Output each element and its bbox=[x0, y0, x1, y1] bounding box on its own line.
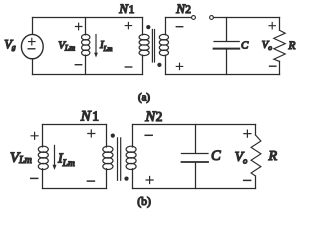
minus sign Vo (a) bbox=[270, 65, 276, 67]
minus sign secondary (a) bbox=[176, 26, 182, 28]
svg-text:ILm: ILm bbox=[99, 39, 112, 53]
transformer core (a) bbox=[152, 30, 154, 63]
minus sign primary (b) bbox=[87, 180, 94, 182]
minus sign secondary (b) bbox=[145, 134, 152, 136]
transformer primary winding (b) bbox=[103, 125, 113, 189]
wire: circuit (a) bottom wire left section bbox=[33, 74, 143, 76]
inductor Lm (b) bbox=[38, 125, 48, 189]
svg-text:N2: N2 bbox=[175, 1, 191, 16]
svg-text:Vo: Vo bbox=[235, 149, 248, 166]
current arrow I_Lm (a) bbox=[94, 35, 98, 58]
plus sign of V_Lm (b) bbox=[31, 132, 38, 139]
plus sign Vo (a) bbox=[269, 23, 275, 29]
polarity dot secondary (a) bbox=[157, 63, 161, 67]
svg-text:C: C bbox=[241, 39, 249, 51]
wire: circuit (a) top wire left section bbox=[33, 17, 143, 19]
svg-text:N1: N1 bbox=[118, 1, 134, 16]
svg-text:Vo: Vo bbox=[262, 40, 272, 52]
transformer primary winding (a) bbox=[139, 18, 149, 75]
minus sign of V_Lm (a) bbox=[75, 64, 81, 66]
polarity dot secondary (b) bbox=[124, 177, 128, 181]
svg-text:R: R bbox=[288, 40, 296, 52]
wire: circuit (b) secondary loop bottom wire bbox=[133, 188, 256, 190]
svg-text:N1: N1 bbox=[80, 109, 99, 125]
wire: circuit (b) primary loop top wire bbox=[43, 124, 107, 126]
polarity dot primary (b) bbox=[111, 134, 115, 138]
wire: circuit (b) primary loop bottom wire bbox=[43, 188, 107, 190]
minus sign primary (a) bbox=[125, 66, 131, 68]
plus sign secondary (a) bbox=[176, 63, 182, 69]
plus sign Vo (b) bbox=[244, 130, 251, 137]
polarity dot primary (a) bbox=[146, 25, 150, 29]
svg-text:ILm: ILm bbox=[57, 151, 75, 169]
svg-text:(b): (b) bbox=[137, 194, 151, 208]
svg-text:C: C bbox=[211, 148, 221, 164]
svg-text:VLm: VLm bbox=[58, 39, 75, 52]
svg-text:(a): (a) bbox=[138, 91, 150, 103]
minus sign of V_Lm (b) bbox=[31, 177, 38, 179]
current arrow I_Lm (b) bbox=[53, 145, 57, 170]
plus sign primary (b) bbox=[88, 130, 95, 137]
svg-text:VLm: VLm bbox=[10, 150, 32, 166]
transformer core (b) bbox=[118, 138, 121, 181]
svg-text:N2: N2 bbox=[144, 109, 162, 125]
capacitor C (b) bbox=[182, 125, 209, 189]
capacitor C (a) bbox=[214, 18, 240, 75]
svg-text:R: R bbox=[268, 149, 278, 164]
resistor R (b) bbox=[251, 125, 261, 189]
svg-text:Vg: Vg bbox=[4, 37, 16, 51]
plus sign secondary (b) bbox=[146, 177, 153, 184]
wire: open terminal to top-right corner (a) bbox=[213, 17, 279, 19]
transformer secondary winding (b) bbox=[126, 125, 136, 189]
open terminal left (a) bbox=[192, 16, 196, 20]
voltage source Vg bbox=[21, 18, 43, 75]
wire: secondary top to open terminal (a) bbox=[166, 17, 192, 19]
plus sign primary (a) bbox=[125, 22, 131, 28]
plus sign of V_Lm (a) bbox=[75, 23, 82, 30]
wire: circuit (b) secondary loop top wire bbox=[133, 124, 256, 126]
minus sign Vo (b) bbox=[244, 179, 251, 181]
resistor R (a) bbox=[274, 18, 285, 75]
wire: circuit (a) bottom wire right section bbox=[166, 74, 280, 76]
inductor Lm (a) bbox=[82, 18, 90, 75]
transformer secondary winding (a) bbox=[159, 18, 168, 75]
open terminal right (a) bbox=[210, 16, 214, 20]
